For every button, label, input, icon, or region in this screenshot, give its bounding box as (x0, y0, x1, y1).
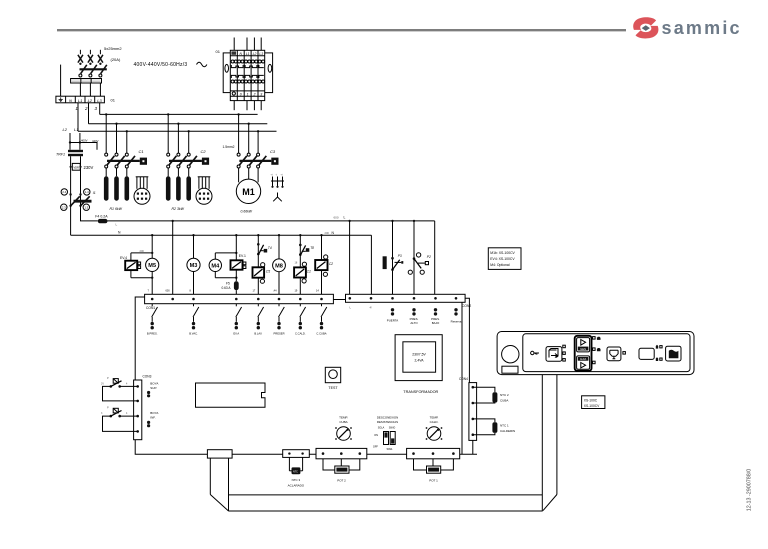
contactor C2 (167, 149, 209, 168)
svg-text:B.LAV.: B.LAV. (254, 332, 262, 336)
svg-text:NTC 1: NTC 1 (500, 424, 509, 428)
terminal block 01 (mains) (56, 96, 105, 103)
pump M8 (273, 235, 286, 294)
input labels (387, 317, 462, 325)
node bus3/C1 (126, 130, 128, 132)
contactor coil C2 (315, 235, 333, 294)
contactor coil C1 (294, 262, 311, 284)
breaker Q1 pole 2 (88, 50, 97, 77)
svg-text:VDR: VDR (73, 165, 79, 169)
svg-text:TEMP.: TEMP. (339, 416, 348, 420)
heater R1 elements (104, 176, 129, 200)
svg-text:L3: L3 (259, 52, 263, 56)
potentiometer TEMP CALD (426, 416, 443, 441)
star point symbol (273, 193, 282, 202)
svg-text:C.CUBA: C.CUBA (316, 332, 326, 336)
svg-text:RESISTENCIAS: RESISTENCIAS (377, 420, 398, 424)
wire L1 feeder (77, 103, 79, 132)
potentiometer POT1 (427, 466, 441, 482)
svg-text:M8: M8 (275, 264, 283, 270)
panel face (523, 334, 690, 372)
node bus1/C2 (167, 113, 169, 115)
svg-text:1.3: 1.3 (84, 205, 88, 209)
wire L3 feeder (99, 103, 101, 115)
svg-text:C3: C3 (270, 149, 276, 154)
svg-text:230V: 230V (84, 165, 94, 170)
switch I1 bar (74, 200, 92, 203)
heater R2 elements (166, 176, 191, 200)
wire to N bus (70, 206, 72, 235)
breaker Q1 pole 1 (78, 50, 87, 77)
faston BOYA INF (147, 421, 150, 424)
svg-text:400V: 400V (81, 139, 88, 143)
svg-text:CON2: CON2 (462, 304, 471, 308)
PCB relay outputs below CON1 (152, 304, 327, 322)
svg-text:SOLA: SOLA (378, 427, 385, 430)
sensor NTC2 (492, 392, 497, 402)
svg-text:L3: L3 (97, 98, 102, 103)
svg-text:C1: C1 (139, 149, 144, 154)
link CON1-CON2 (333, 299, 345, 301)
terminal 1.3 (83, 204, 89, 210)
panel housing (497, 332, 694, 375)
svg-text:01: 01 (111, 98, 116, 103)
pump M4 parallel loop (215, 253, 236, 278)
svg-text:2,4VA: 2,4VA (415, 359, 425, 363)
transformer T2 (PCB) (395, 335, 442, 394)
node tap L2 (69, 141, 71, 143)
bus L2 (row 2) (89, 123, 268, 125)
svg-text:NTC 3: NTC 3 (292, 478, 301, 482)
svg-text:I1: I1 (93, 191, 96, 195)
connector plug R1 (134, 177, 150, 205)
svg-text:600: 600 (166, 290, 171, 293)
secondary wire right (80, 156, 82, 206)
connector NTC3 (283, 450, 310, 471)
svg-text:0: 0 (240, 92, 242, 96)
faston terminals below CON2 (391, 308, 458, 316)
svg-text:1.5mm2: 1.5mm2 (223, 145, 235, 149)
breaker label box 1 (71, 79, 81, 84)
node N bus M5 (151, 234, 153, 236)
svg-text:F5: F5 (226, 281, 230, 285)
svg-text:P2: P2 (427, 255, 431, 259)
TEST button (325, 367, 340, 390)
svg-text:C5: C5 (266, 269, 270, 273)
svg-text:CON4: CON4 (459, 377, 468, 381)
svg-text:M1: M1 (242, 187, 255, 197)
wires above block (234, 38, 261, 51)
thermostat T4 (257, 235, 272, 294)
svg-text:CALDERIN: CALDERIN (500, 429, 515, 433)
svg-text:T4: T4 (268, 246, 272, 250)
svg-text:POT 2: POT 2 (337, 478, 346, 482)
svg-text:Reserva: Reserva (451, 320, 462, 324)
svg-text:CON1: CON1 (146, 306, 155, 310)
svg-text:XS-100C: XS-100C (584, 398, 598, 402)
svg-text:B.PRES.: B.PRES. (147, 332, 158, 336)
node L bus P-switch feed (348, 220, 350, 222)
svg-text:B.VAC.: B.VAC. (189, 332, 198, 336)
svg-text:OFF: OFF (373, 445, 379, 449)
wire pole3 to block (99, 83, 101, 96)
wire primary L1 (79, 133, 81, 150)
node N bus EV1 (235, 234, 237, 236)
faston BOYA SUP (147, 391, 150, 394)
svg-text:ON: ON (374, 433, 378, 437)
valve EV4 parallel loop (131, 253, 152, 278)
node bus3/C3 (257, 130, 259, 132)
start leds (593, 337, 601, 364)
svg-text:600: 600 (334, 215, 339, 219)
svg-text:CON3: CON3 (143, 375, 152, 379)
wire L2 feeder (88, 103, 90, 124)
svg-text:3: 3 (260, 92, 262, 96)
contactor C3 (237, 149, 278, 168)
model box XS-100 (582, 396, 605, 409)
potentiometer POT2 (335, 466, 349, 482)
button program (546, 347, 562, 362)
wire M5 column (151, 235, 153, 294)
info box M1b/EV4/M4 (488, 248, 521, 270)
clamp channels (231, 65, 263, 78)
svg-text:M3: M3 (190, 263, 198, 269)
svg-text:+t: +t (271, 174, 273, 177)
svg-text:0.66kW: 0.66kW (241, 210, 253, 214)
svg-text:EV.1: EV.1 (239, 254, 246, 258)
door switch P3 (383, 220, 404, 295)
svg-text:L1: L1 (246, 52, 250, 56)
pump M3 (187, 235, 200, 294)
node bus2/C3 (248, 123, 250, 125)
bus L (control live) (108, 220, 435, 222)
fuse F5 (222, 281, 239, 294)
wire L corner to CON2-5 (434, 221, 436, 295)
node bus3/C2 (188, 130, 190, 132)
pump M4 (209, 259, 221, 271)
svg-text:SUP.: SUP. (150, 386, 157, 390)
svg-text:4!: 4! (370, 306, 373, 310)
svg-text:T8: T8 (310, 246, 314, 250)
motor M1 (236, 179, 260, 203)
connector plug R2 (196, 177, 212, 205)
breaker label box 3 (91, 79, 101, 84)
svg-text:P3: P3 (398, 254, 402, 258)
svg-text:C2: C2 (201, 149, 207, 154)
svg-text:ACLARADO: ACLARADO (288, 483, 305, 487)
valve EV4 (120, 256, 141, 270)
contactor coil C5 (253, 263, 271, 284)
faston terminals below CON1 (151, 322, 324, 330)
key icon (531, 351, 539, 355)
contactor C1 (105, 149, 147, 168)
microcontroller U1 (196, 383, 266, 407)
svg-text:PUERTA: PUERTA (387, 319, 399, 323)
wires contactor C2 to R2 (168, 168, 189, 176)
program leds (563, 345, 566, 348)
node I1 bottom right (79, 205, 81, 207)
node I1 bottom left (69, 205, 71, 207)
start button group (575, 336, 592, 371)
svg-text:TRANSFORMADOR: TRANSFORMADOR (403, 390, 438, 394)
svg-text:NTC 2: NTC 2 (500, 393, 509, 397)
svg-text:BAJO: BAJO (432, 321, 440, 325)
svg-text:ALTO: ALTO (410, 321, 418, 325)
sensor NTC2 loop (473, 387, 495, 403)
svg-text:BOYA: BOYA (150, 381, 158, 385)
svg-text:L2: L2 (88, 98, 93, 103)
left ear (225, 64, 229, 72)
panel knob circle (502, 346, 519, 363)
thermostat T8 (299, 235, 314, 294)
svg-text:5x25mm2: 5x25mm2 (104, 46, 122, 51)
svg-text:POT 1: POT 1 (429, 478, 438, 482)
svg-text:L2: L2 (253, 52, 257, 56)
sammic logo S mark (633, 17, 658, 38)
svg-text:EV.4: EV.4 (120, 256, 127, 260)
terminal body (230, 50, 264, 100)
aux drop wire (172, 221, 174, 295)
node I1 top left (69, 193, 71, 195)
svg-text:TEMP.: TEMP. (430, 416, 439, 420)
wires contactor C1 to R1 (106, 168, 127, 176)
svg-text:EV4: XS-100CV: EV4: XS-100CV (490, 257, 515, 261)
varistor VDR (70, 163, 82, 170)
float switch BOYA INF (101, 406, 138, 432)
wire N to CON2-2 (370, 235, 372, 294)
potentiometer TEMP CUBA (335, 416, 352, 441)
sensor NTC3 (292, 467, 301, 474)
connector strip CON2 (346, 294, 472, 309)
dip switch SW1 (373, 416, 398, 451)
connector POT1 (407, 448, 460, 470)
wire CON2 to CON4 (465, 298, 469, 382)
svg-text:2.4: 2.4 (62, 190, 66, 194)
svg-text:M4: Optional: M4: Optional (490, 263, 509, 267)
pump M5 (146, 258, 159, 271)
svg-text:L1: L1 (74, 127, 78, 132)
node tap L1 (79, 141, 81, 143)
wire pole2 to block (89, 83, 91, 96)
node bus2/C2 (177, 123, 179, 125)
svg-text:SW1: SW1 (386, 447, 393, 451)
display (639, 348, 654, 359)
svg-text:TRF1: TRF1 (56, 152, 65, 156)
drop wires to contactors (106, 114, 258, 153)
tap wire 440V (70, 143, 97, 150)
svg-text:sammic: sammic (662, 18, 742, 38)
svg-text:INF.: INF. (150, 416, 156, 420)
svg-text:+t: +t (281, 174, 283, 177)
wire pole1 to block (79, 83, 81, 96)
svg-text:SI/NO: SI/NO (389, 427, 396, 430)
bus N (control neutral) (71, 234, 372, 236)
header rule (57, 29, 626, 31)
svg-text:0.63 A: 0.63 A (222, 286, 232, 290)
bus L1 (row 3) (78, 130, 277, 132)
svg-text:ALFA: ALFA (580, 357, 587, 361)
svg-text:1.4: 1.4 (85, 190, 89, 194)
svg-text:GEN: GEN (580, 347, 586, 351)
svg-text:TEST: TEST (328, 386, 338, 390)
svg-text:PRESER: PRESER (273, 332, 284, 336)
node N bus M8 (278, 234, 280, 236)
svg-text:200: 200 (140, 249, 145, 253)
connector POT2 (316, 448, 367, 470)
earth conductor (60, 65, 62, 97)
terminal 1.4 (84, 189, 90, 195)
svg-text:P: P (107, 376, 109, 380)
node bus1/C1 (105, 113, 107, 115)
svg-text:M5: M5 (148, 263, 156, 269)
fuse F4 (98, 219, 108, 223)
svg-text:L1: L1 (78, 98, 82, 103)
bus L3 (row 1) (100, 113, 258, 115)
breaker interlock bar (80, 68, 107, 70)
connector strip CON1 (145, 294, 334, 310)
mounting plate (223, 53, 272, 93)
svg-text:P: P (107, 406, 109, 410)
wire L to CON2-1 (349, 221, 351, 295)
svg-text:L: L (344, 215, 346, 219)
svg-text:CALD.: CALD. (430, 420, 439, 424)
wire numbers above CON1 (148, 290, 320, 293)
PCB outline (135, 297, 477, 454)
svg-text:C1: C1 (307, 270, 311, 274)
transformer TRF1 core (68, 150, 83, 152)
switch I1 blades (71, 196, 80, 206)
sine symbol (197, 62, 207, 66)
svg-text:M1b: XS-100CV: M1b: XS-100CV (490, 251, 515, 255)
wire CON4 bottom (472, 440, 474, 454)
output labels (147, 332, 327, 336)
svg-text:L2: L2 (63, 127, 68, 132)
svg-text:BOYA: BOYA (150, 411, 158, 415)
node bus2/C1 (115, 123, 117, 125)
svg-text:2.3: 2.3 (62, 205, 66, 209)
motor thermal contacts (klixon) (271, 174, 285, 188)
svg-text:F4 0.2A: F4 0.2A (95, 215, 108, 219)
svg-text:200: 200 (325, 231, 330, 235)
temp button (666, 346, 681, 361)
svg-text:N: N (69, 98, 72, 103)
stub wires below block (234, 101, 261, 111)
svg-text:01: 01 (216, 49, 221, 54)
svg-text:CUBA: CUBA (500, 399, 508, 403)
svg-text:NTC: NTC (293, 471, 298, 474)
svg-text:(20A): (20A) (111, 57, 121, 62)
connector CON4 (459, 377, 477, 440)
ribbon connector to panel (207, 450, 232, 458)
terminal 2.4 (61, 189, 67, 195)
node L bus / aux drop (172, 220, 174, 222)
svg-text:440V: 440V (92, 139, 99, 143)
secondary wire left (70, 156, 72, 206)
svg-text:2: 2 (84, 106, 88, 111)
pressure switch P2 (408, 220, 431, 295)
breaker label box 2 (81, 79, 91, 84)
svg-text:M4: M4 (211, 264, 220, 270)
sensor NTC1 (492, 422, 497, 433)
wires contactor C3 to motor (239, 168, 259, 182)
terminal 2.3 (61, 204, 67, 210)
right ear (268, 64, 272, 72)
svg-text:2: 2 (253, 92, 256, 96)
svg-text:2V: 2V (101, 383, 104, 386)
node N bus M3 (192, 234, 194, 236)
svg-text:C.CALD.: C.CALD. (295, 332, 306, 336)
svg-text:400V-440V/50-60Hz/3: 400V-440V/50-60Hz/3 (134, 62, 188, 68)
svg-text:R2 3kW: R2 3kW (172, 207, 185, 211)
node bus1/C3 (237, 113, 239, 115)
wire to fuse F4 (81, 206, 98, 221)
drain led (623, 352, 626, 355)
valve EV1 (231, 235, 246, 281)
svg-text:12-13 -2900788/0: 12-13 -2900788/0 (747, 469, 753, 512)
breaker Q1 pole 3 (98, 50, 107, 77)
ribbon cable (210, 375, 557, 511)
svg-text:R1 6kW: R1 6kW (110, 207, 123, 211)
drain button (607, 347, 621, 361)
svg-text:DESCONEXION: DESCONEXION (377, 416, 398, 420)
svg-text:EV.A: EV.A (233, 332, 239, 336)
wire primary L2 (69, 133, 71, 150)
node N bus T8 (299, 234, 301, 236)
connector CON3 (134, 375, 152, 440)
svg-text:C2: C2 (329, 262, 333, 266)
sensor NTC1 loop (473, 419, 495, 435)
node N bus T4 (257, 234, 259, 236)
svg-text:CUBA: CUBA (339, 420, 347, 424)
temp icons (656, 345, 662, 361)
panel window (502, 366, 518, 373)
svg-text:230/7,5V: 230/7,5V (412, 353, 426, 357)
float switch BOYA SUP (101, 376, 138, 401)
svg-text:XS-100CV: XS-100CV (584, 404, 600, 408)
terminal clamp circles (231, 60, 265, 83)
node I1 top right (79, 193, 81, 195)
svg-text:1: 1 (247, 92, 249, 96)
node N bus C2coil (320, 234, 322, 236)
